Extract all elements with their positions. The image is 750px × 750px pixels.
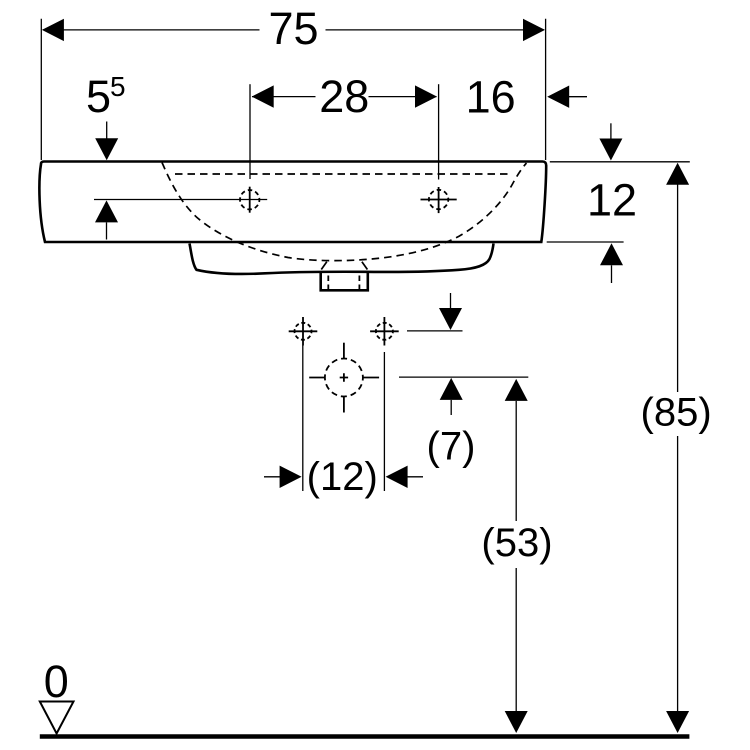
dimension (12): right arrow tail <box>407 476 424 478</box>
dimension 7: down arrow <box>439 308 462 330</box>
dimension (53): top arrow <box>505 379 528 401</box>
dimension 12: top arrow stem <box>610 123 612 140</box>
svg-text:5: 5 <box>86 71 111 122</box>
dimension 12: top extension line <box>550 161 690 163</box>
dimension (12): left extension line <box>302 346 304 492</box>
dimension (12): left arrow tail <box>264 476 281 478</box>
svg-text:75: 75 <box>268 3 318 54</box>
dimension 16: arrow tail <box>568 96 587 98</box>
svg-text:(85): (85) <box>641 391 712 435</box>
datum triangle <box>40 702 74 734</box>
drain level extension line <box>399 376 528 378</box>
supply cross right <box>370 317 399 346</box>
dimension 75: right extension line <box>545 19 547 160</box>
dimension 5.5: down arrow stem <box>106 122 108 140</box>
dimension 12: top arrow <box>599 139 622 161</box>
dimension (85): top arrow <box>666 163 689 185</box>
dimension 12: bottom arrow <box>600 243 623 265</box>
faucet hole cross left <box>240 187 259 213</box>
dimension (85): line <box>677 184 679 711</box>
dimension 5.5: down arrow <box>95 138 118 160</box>
svg-text:(12): (12) <box>307 455 378 499</box>
svg-text:16: 16 <box>466 72 516 123</box>
dimension 16: arrow pointing left at right edge <box>547 86 569 108</box>
faucet height leader line <box>94 199 267 201</box>
dashed inner bowl curve <box>162 163 527 261</box>
drain funnel hidden dashed lines <box>321 262 367 270</box>
dimension 12: bottom arrow stem <box>611 265 613 283</box>
dimension 7: down arrow stem <box>450 293 452 309</box>
dimension 28: left extension line <box>249 84 251 179</box>
dimension 28: right extension line <box>438 84 440 179</box>
supply cross left <box>289 317 318 346</box>
drain centre cross <box>309 343 379 413</box>
dimension 12: bottom extension line <box>547 241 624 243</box>
svg-text:12: 12 <box>587 175 637 226</box>
faucet height up arrow <box>95 200 118 222</box>
dimension 28: right arrow <box>415 85 437 107</box>
supply level extension line <box>407 330 463 332</box>
basin outer outline <box>39 162 546 243</box>
dimension (12): right extension line <box>383 352 385 491</box>
svg-text:(7): (7) <box>427 425 476 469</box>
dimension 75: left extension line <box>40 19 42 160</box>
dashed inner bowl rim line <box>175 173 511 175</box>
dimension 28: line <box>252 96 437 98</box>
dimension (12): left arrow <box>280 466 302 488</box>
apron (lower body) outline <box>190 244 494 274</box>
dimension 7: up arrow <box>440 378 463 400</box>
faucet height up arrow stem <box>106 222 108 239</box>
svg-text:(53): (53) <box>481 521 552 565</box>
dimension 28: left arrow <box>252 85 274 107</box>
faucet hole cross right <box>421 187 457 213</box>
dimension 75: right arrow <box>523 19 545 41</box>
drain bore hidden dashed lines <box>328 276 359 291</box>
svg-text:0: 0 <box>44 656 69 707</box>
floor line <box>40 734 690 739</box>
dimension 75: line <box>43 29 544 31</box>
dimension 7: up arrow stem <box>450 400 452 415</box>
drain stub outline <box>321 272 368 291</box>
svg-text:5: 5 <box>110 71 126 102</box>
svg-text:28: 28 <box>319 71 369 122</box>
dimension (53): line <box>515 401 517 711</box>
dimension (53): bottom arrow <box>505 711 528 733</box>
dimension (12): right arrow <box>386 466 408 488</box>
dimension 75: left arrow <box>42 19 64 41</box>
dimension (85): bottom arrow <box>666 711 689 733</box>
